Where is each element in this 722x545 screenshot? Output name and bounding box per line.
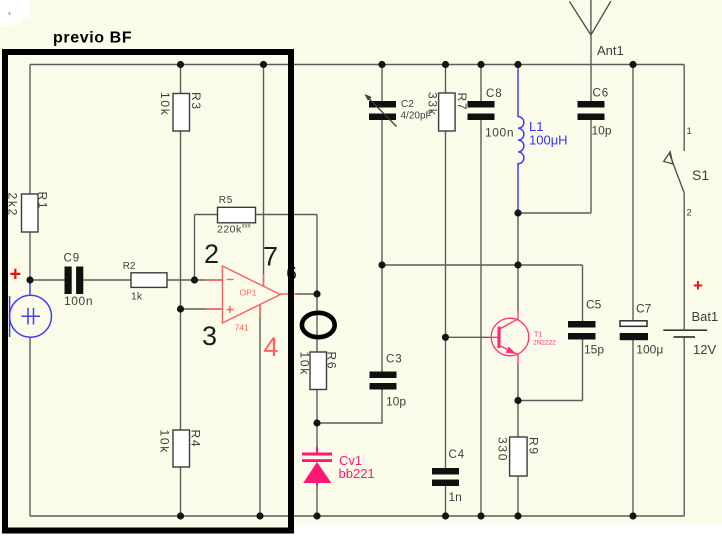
svg-text:1: 1 — [687, 126, 692, 137]
wire feedback up — [194, 215, 196, 281]
svg-text:+: + — [10, 264, 22, 286]
wire C6 down — [590, 120, 592, 213]
node noninverting input — [177, 305, 184, 312]
svg-text:741: 741 — [235, 323, 249, 333]
svg-text:C4: C4 — [449, 449, 466, 461]
svg-text:Ant1: Ant1 — [597, 43, 624, 58]
wire S1 to battery — [683, 193, 685, 330]
svg-text:100μH: 100μH — [529, 133, 568, 148]
wire R5 to output drop — [256, 214, 318, 216]
wire emitter down — [517, 365, 519, 438]
svg-text:2: 2 — [204, 239, 219, 269]
resistor R3 — [173, 94, 190, 132]
resistor R2 — [131, 273, 167, 288]
wire top supply rail — [30, 64, 684, 66]
node varicap — [313, 419, 320, 426]
svg-text:100n: 100n — [485, 126, 514, 140]
svg-text:100n: 100n — [64, 294, 93, 308]
node top C2 — [378, 61, 385, 68]
node collector rail — [514, 261, 521, 268]
switch S1 — [664, 152, 685, 193]
resistor R7 — [439, 93, 456, 131]
capacitor C7 electrolytic — [620, 321, 647, 327]
wire C7 to ground — [632, 340, 634, 517]
capacitor C3 — [370, 372, 397, 390]
svg-text:4: 4 — [264, 332, 279, 362]
annotation ellipse output node — [302, 313, 335, 337]
svg-text:15p: 15p — [584, 343, 604, 357]
transistor T1 — [490, 311, 529, 365]
svg-text:S1: S1 — [692, 167, 709, 183]
svg-text:33k: 33k — [426, 92, 440, 116]
svg-text:12V: 12V — [693, 342, 716, 357]
previo BF annotation frame — [5, 52, 291, 531]
svg-text:7: 7 — [263, 242, 278, 272]
svg-text:R4: R4 — [189, 430, 203, 449]
capacitor C2 variable — [369, 101, 396, 120]
wire C6 to L1 bottom — [518, 212, 591, 214]
wire C8 branch top — [480, 65, 482, 102]
resistor R9 — [510, 437, 527, 476]
wire R7 to C4 — [445, 131, 447, 468]
wire C4 to ground — [445, 486, 447, 516]
svg-text:R6: R6 — [325, 352, 339, 371]
wire C5 top — [582, 265, 584, 321]
svg-text:1k: 1k — [131, 291, 143, 303]
node gnd Cv1 — [313, 512, 320, 519]
wire node A to C9 — [30, 279, 65, 281]
svg-text:10k: 10k — [158, 92, 172, 116]
microphone MIC1 — [10, 283, 52, 337]
resistor R1 — [22, 194, 39, 232]
wire R7 branch top — [445, 65, 447, 94]
node emitter — [514, 397, 521, 404]
wire collector feed rail — [382, 264, 583, 266]
white margin bottom-left — [0, 535, 295, 541]
wire bottom ground rail — [30, 515, 684, 517]
wire pin4 to ground — [259, 305, 261, 516]
wire emitter to C5 — [518, 400, 583, 402]
wire R3 to noninverting node — [180, 131, 182, 431]
svg-text:bb221: bb221 — [339, 466, 375, 481]
varicap diode Cv1 — [302, 447, 332, 486]
wire output node to R6 — [316, 294, 318, 352]
node output — [313, 290, 320, 297]
svg-text:10k: 10k — [298, 352, 312, 376]
capacitor C6 — [578, 101, 605, 120]
node gnd pin4 — [256, 512, 263, 519]
wire pin7 supply — [263, 65, 265, 288]
svg-text:R5: R5 — [219, 195, 233, 206]
node top pin7 — [260, 61, 267, 68]
node mic input — [26, 276, 33, 283]
node inverting input — [191, 276, 198, 283]
wire antenna to C6 — [590, 36, 592, 101]
wire C5 bottom — [582, 340, 584, 401]
svg-text:10k: 10k — [158, 430, 172, 454]
antenna Ant1 — [569, 0, 611, 36]
svg-text:previo BF: previo BF — [53, 30, 132, 47]
capacitor C4 — [432, 468, 459, 486]
svg-text:330: 330 — [496, 437, 510, 462]
svg-text:C7: C7 — [636, 302, 652, 316]
white patch top-left — [0, 0, 29, 18]
svg-text:C2: C2 — [401, 99, 414, 110]
wire varicap node top lead — [316, 423, 318, 448]
node top R7 — [442, 61, 449, 68]
node top R3 — [177, 61, 184, 68]
svg-text:C3: C3 — [386, 354, 403, 366]
wire left vertical (mic branch) — [29, 65, 31, 195]
svg-text:R3: R3 — [189, 92, 203, 111]
capacitor C9 — [65, 267, 84, 295]
resistor R4 — [173, 430, 190, 467]
svg-text:C9: C9 — [64, 253, 81, 265]
resistor R5 — [218, 207, 256, 223]
wire R2 to inverting node — [167, 279, 222, 281]
node gnd C7 — [629, 512, 636, 519]
resistor R6 — [310, 352, 327, 390]
node gnd R9 — [514, 512, 521, 519]
svg-text:+: + — [693, 276, 703, 295]
svg-text:2N2222: 2N2222 — [533, 340, 556, 347]
op-amp OP1 — [206, 266, 297, 323]
wire R6 to varicap node — [316, 389, 318, 424]
wire feedback to R5 — [195, 214, 218, 216]
svg-text:3: 3 — [202, 321, 217, 351]
wire battery to ground — [683, 338, 685, 517]
svg-text:R9: R9 — [527, 437, 541, 456]
svg-text:1n: 1n — [449, 490, 462, 504]
svg-text:C8: C8 — [486, 88, 503, 100]
svg-text:10p: 10p — [386, 395, 406, 409]
node gnd R4 — [177, 512, 184, 519]
svg-text:Bat1: Bat1 — [692, 309, 719, 324]
node C2 C3 junction — [378, 261, 385, 268]
svg-text:R2: R2 — [123, 261, 136, 272]
wire L1 bottom to collector — [517, 213, 519, 311]
wire C7 branch top — [632, 65, 634, 321]
node gnd C4 — [442, 512, 449, 519]
wire C9 to R2 — [84, 279, 132, 281]
svg-text:C6: C6 — [593, 88, 610, 100]
wire varicap node to C3 — [317, 390, 382, 424]
svg-text:OP1: OP1 — [240, 287, 257, 297]
wire R3 branch vertical — [180, 65, 182, 94]
white margin bottom-right — [295, 524, 722, 541]
wire C8 to ground — [480, 120, 482, 516]
wire S1 top lead — [683, 65, 685, 152]
wire varicap to ground — [316, 485, 318, 517]
wire C2 branch top — [381, 65, 383, 102]
svg-text:10p: 10p — [592, 124, 612, 138]
wire C2 to C3 — [381, 120, 383, 372]
wire R1 to mic node — [29, 232, 31, 284]
wire base — [446, 336, 490, 338]
node top C7 — [629, 61, 636, 68]
node L1 C6 junction — [514, 209, 521, 216]
capacitor C8 — [468, 101, 495, 120]
wire noninverting input — [181, 308, 223, 310]
svg-text:C5: C5 — [586, 298, 602, 312]
svg-text:R1: R1 — [36, 192, 50, 211]
capacitor C5 — [568, 321, 596, 340]
node base — [442, 334, 449, 341]
node gnd C8 — [477, 512, 484, 519]
wire R9 to ground — [517, 476, 519, 516]
svg-text:2: 2 — [687, 208, 692, 219]
wire opamp output — [296, 293, 317, 295]
battery Bat1 — [663, 329, 707, 331]
wire R4 to ground — [180, 467, 182, 516]
inductor L1 — [518, 70, 524, 213]
svg-text:100μ: 100μ — [636, 343, 663, 357]
svg-text:T1: T1 — [534, 332, 542, 339]
wire mic to ground rail — [29, 338, 31, 517]
wire feedback down to output — [316, 215, 318, 295]
wire L1 branch top — [517, 65, 519, 71]
svg-text:R7: R7 — [455, 93, 469, 112]
node top C8 — [477, 61, 484, 68]
node top L1 — [514, 61, 521, 68]
